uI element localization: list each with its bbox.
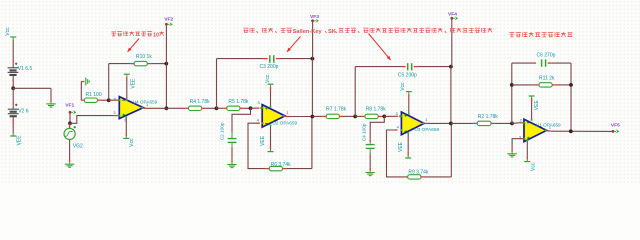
svg-text:VEE: VEE [260, 135, 266, 146]
svg-text:4: 4 [114, 97, 116, 101]
svg-text:V1 6.5: V1 6.5 [18, 66, 33, 72]
svg-text:1: 1 [146, 103, 148, 107]
svg-text:2: 2 [520, 119, 522, 123]
svg-text:3: 3 [519, 136, 521, 140]
svg-text:Vcc: Vcc [129, 138, 135, 147]
svg-text:C4 100p: C4 100p [362, 123, 367, 141]
svg-text:1: 1 [425, 118, 427, 122]
svg-text:C5 200p: C5 200p [398, 73, 417, 79]
svg-text:4: 4 [257, 119, 259, 123]
svg-text:R1 100: R1 100 [86, 92, 102, 98]
svg-text:VF2: VF2 [164, 17, 173, 23]
svg-text:U2 OPA659: U2 OPA659 [272, 120, 297, 125]
svg-text:R9 3.74k: R9 3.74k [408, 170, 429, 176]
svg-text:C6 270p: C6 270p [537, 52, 556, 58]
svg-text:R10 1k: R10 1k [136, 54, 152, 60]
svg-text:VEE: VEE [130, 78, 136, 89]
svg-text:R7 1.78k: R7 1.78k [326, 107, 347, 113]
svg-text:1: 1 [287, 111, 289, 115]
svg-text:3: 3 [396, 112, 398, 116]
svg-text:R8 1.78k: R8 1.78k [366, 107, 387, 113]
svg-text:Vcc: Vcc [400, 82, 406, 91]
svg-text:VEE: VEE [398, 141, 404, 152]
svg-text:R5 1.78k: R5 1.78k [228, 99, 249, 105]
svg-text:Vcc: Vcc [265, 74, 271, 83]
svg-text:Vcc: Vcc [530, 162, 536, 171]
svg-text:1: 1 [549, 126, 551, 130]
svg-text:VF4: VF4 [448, 11, 457, 17]
svg-text:Sallen-Key: Sallen-Key [293, 29, 323, 35]
svg-text:C3 200p: C3 200p [260, 64, 279, 70]
svg-text:VG2: VG2 [73, 144, 83, 150]
svg-text:4: 4 [397, 125, 399, 129]
svg-text:2: 2 [124, 119, 126, 123]
svg-text:Vcc: Vcc [5, 27, 11, 36]
svg-text:3: 3 [257, 101, 259, 105]
svg-text:U3 OPA659: U3 OPA659 [414, 127, 439, 132]
svg-text:VEE: VEE [17, 135, 23, 146]
svg-text:3: 3 [113, 111, 115, 115]
svg-text:VF3: VF3 [310, 14, 319, 20]
svg-text:VEE: VEE [534, 100, 540, 111]
svg-text:SK: SK [328, 29, 337, 35]
svg-text:10: 10 [153, 32, 159, 38]
svg-text:R6 3.74k: R6 3.74k [271, 162, 292, 168]
svg-text:R4 1.78k: R4 1.78k [190, 99, 211, 105]
svg-text:VF5: VF5 [611, 123, 620, 129]
svg-text:R2 1.78k: R2 1.78k [478, 114, 499, 120]
svg-text:VF1: VF1 [65, 102, 74, 108]
svg-text:R11 2k: R11 2k [539, 76, 555, 82]
svg-text:V2 6: V2 6 [18, 109, 29, 115]
svg-text:C2 100p: C2 100p [220, 122, 225, 140]
